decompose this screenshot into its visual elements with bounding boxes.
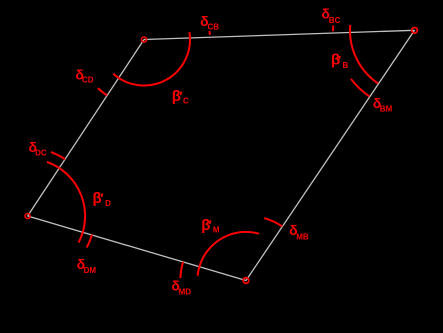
node M [243, 278, 249, 284]
svg-text:MD: MD [179, 288, 192, 297]
node D [25, 214, 30, 219]
svg-text:C: C [183, 97, 189, 106]
svg-text:CD: CD [82, 76, 94, 85]
svg-text:DC: DC [35, 148, 47, 157]
wire side BM [246, 30, 415, 280]
direction tick delta BC [332, 26, 334, 32]
direction tick delta DM [87, 235, 92, 248]
svg-text:B: B [343, 61, 349, 70]
svg-text:MB: MB [296, 232, 309, 241]
direction tick delta CB [208, 31, 211, 35]
svg-text:D: D [105, 199, 111, 208]
arc beta'C at vertex C [113, 32, 190, 85]
wire side MD [28, 216, 246, 281]
direction tick delta DC [51, 152, 65, 159]
svg-text:DM: DM [84, 266, 97, 275]
svg-text:BM: BM [380, 104, 393, 113]
svg-text:M: M [213, 226, 220, 235]
direction tick delta CD [98, 88, 107, 95]
direction tick delta MB [264, 218, 282, 226]
svg-text:BC: BC [329, 16, 341, 25]
arc beta'D at vertex D [47, 162, 85, 243]
arc beta'M at vertex M [198, 232, 259, 276]
node C [142, 37, 147, 42]
node B [412, 28, 418, 34]
svg-text:CB: CB [208, 23, 220, 32]
direction tick delta MD [180, 262, 183, 278]
wire side CB [144, 30, 415, 39]
direction tick delta BM [351, 79, 370, 97]
wire side DC [28, 40, 144, 217]
arc beta'B at vertex B [350, 25, 378, 84]
